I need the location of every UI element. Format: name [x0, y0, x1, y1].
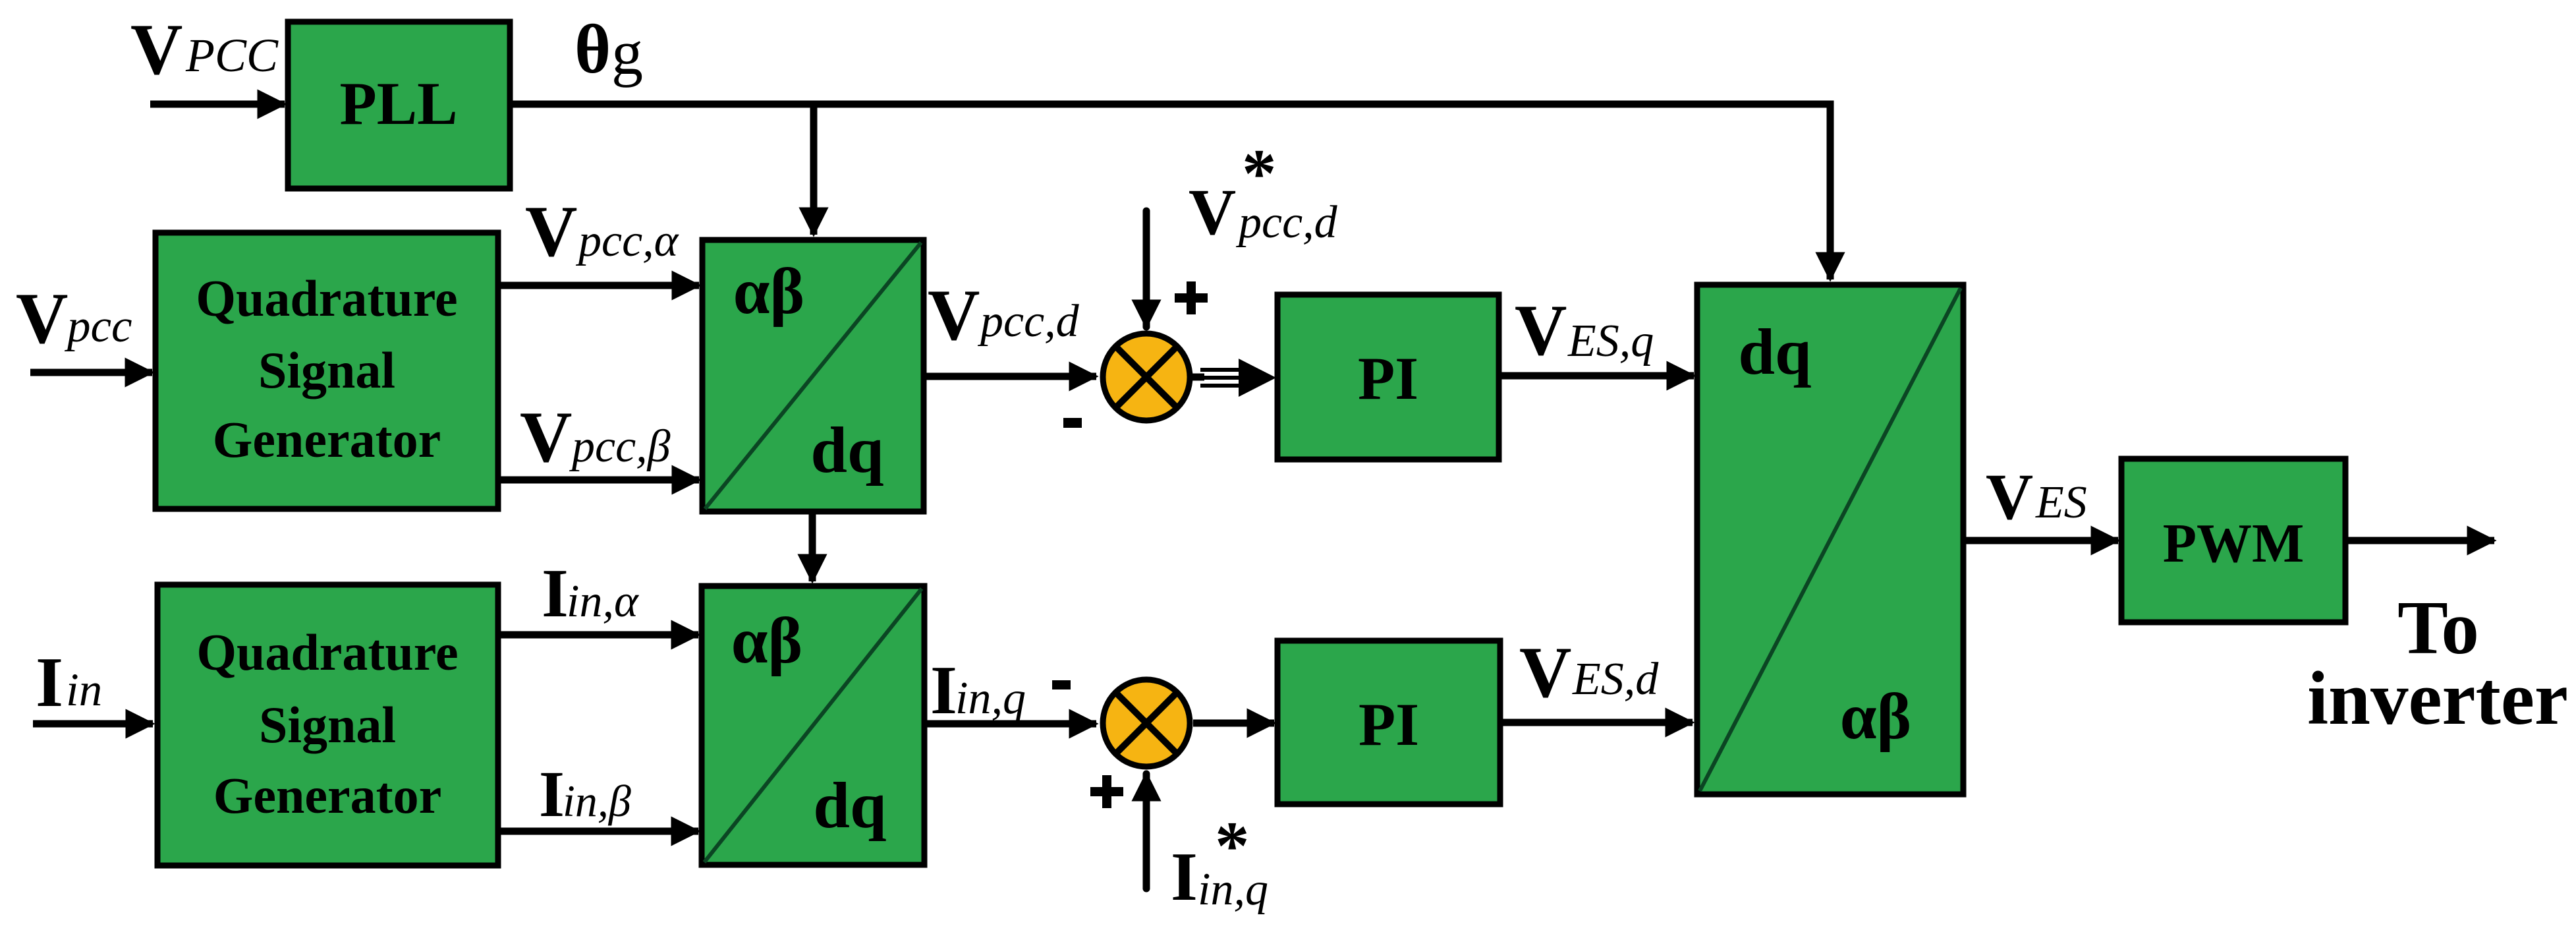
svg-text:g: g: [611, 17, 643, 88]
node label V_pcc_d: [928, 275, 1080, 355]
svg-text:Signal: Signal: [258, 341, 395, 399]
wire Vpcc input arrow into PLL: [150, 101, 285, 108]
block ab-to-dq transform 2: [702, 586, 924, 865]
wire reference Iin_q* up into summing junction 2: [1143, 774, 1150, 889]
node label V_PCC: [130, 9, 279, 90]
node label I_in_q: [930, 651, 1026, 728]
svg-text:dq: dq: [1738, 315, 1811, 388]
svg-text:I: I: [542, 554, 569, 631]
block PLL: [288, 22, 510, 189]
svg-text:pcc,β: pcc,β: [569, 421, 671, 472]
svg-text:ES: ES: [2035, 477, 2087, 528]
summing junction 1 (multiplier circle): [1103, 334, 1190, 421]
wire theta_g from PLL to dq/ab block: [510, 104, 1830, 279]
svg-text:I: I: [539, 757, 565, 831]
svg-text:V: V: [520, 397, 572, 477]
plus sign at summing junction 1: [1175, 281, 1208, 314]
svg-text:V: V: [1986, 460, 2033, 533]
svg-text:in,q: in,q: [955, 673, 1026, 724]
block quadrature signal generator 2: [157, 585, 498, 865]
svg-text:V: V: [16, 278, 68, 359]
svg-text:Quadrature: Quadrature: [196, 270, 457, 327]
wire Vpcc input arrow into quadrature signal generator 1: [30, 369, 152, 376]
svg-text:Generator: Generator: [213, 767, 442, 824]
svg-text:ES,d: ES,d: [1572, 654, 1659, 705]
node label V_pcc: [16, 278, 132, 359]
wire V_ES_d from PI2 to dq/ab block: [1500, 719, 1693, 726]
block ab-to-dq transform 1: [702, 240, 924, 512]
block PWM: [2121, 459, 2345, 622]
node label V_pcc_alpha: [525, 191, 679, 272]
svg-text:in: in: [66, 664, 102, 716]
wire triple-line equivalence arrow from summing junction 1 to PI1: [1190, 359, 1276, 397]
wire from ab/dq block1 down to ab/dq block2: [809, 512, 816, 581]
wire from summing junction 2 to PI2: [1193, 720, 1274, 727]
wire V_ES from dq/ab block to PWM: [1963, 537, 2118, 544]
wire Vpcc_d from ab/dq block1 to summing junction 1: [924, 373, 1096, 380]
svg-text:V: V: [928, 275, 980, 355]
node label I_in_q reference with star: [1171, 807, 1268, 915]
node label I_in_beta: [539, 757, 631, 831]
node label I_in: [36, 643, 102, 722]
wire Iin input arrow into quadrature signal generator 2: [33, 720, 153, 728]
svg-text:θ: θ: [574, 11, 611, 88]
svg-text:PWM: PWM: [2163, 513, 2305, 574]
block PI controller 1: [1277, 295, 1499, 459]
node label V_ES: [1986, 460, 2087, 533]
plus sign at summing junction 2: [1090, 775, 1123, 808]
wire Vpcc_alpha from QSG1 to ab/dq block 1: [498, 282, 699, 289]
svg-text:dq: dq: [810, 413, 883, 486]
node label I_in_alpha: [542, 554, 639, 631]
svg-text:*: *: [1242, 134, 1277, 212]
svg-text:PLL: PLL: [340, 70, 458, 137]
svg-text:I: I: [1171, 838, 1198, 915]
svg-text:in,β: in,β: [563, 776, 631, 826]
svg-text:pcc,α: pcc,α: [575, 216, 679, 266]
svg-text:inverter: inverter: [2307, 657, 2568, 740]
svg-text:*: *: [1215, 807, 1250, 884]
wire theta_g branch down into first ab/dq block: [810, 107, 818, 235]
svg-text:V: V: [1189, 175, 1236, 249]
minus sign at summing junction 1: [1063, 418, 1082, 428]
node label V_ES_q: [1515, 290, 1654, 370]
wire Iin_q from ab/dq block2 to summing junction 2: [924, 720, 1096, 728]
node label V_pcc_d reference with star: [1189, 134, 1338, 249]
svg-text:αβ: αβ: [733, 254, 805, 328]
svg-text:PCC: PCC: [185, 29, 279, 82]
svg-text:I: I: [36, 643, 63, 722]
block quadrature signal generator 1: [155, 233, 498, 509]
wire PWM output to inverter: [2345, 537, 2494, 544]
svg-text:I: I: [930, 651, 957, 728]
svg-text:Signal: Signal: [259, 696, 396, 753]
wire V_ES_q from PI1 to dq/ab block: [1499, 372, 1694, 380]
minus sign at summing junction 2: [1052, 680, 1071, 689]
svg-text:PI: PI: [1358, 691, 1419, 758]
wire Iin_beta from QSG2 to ab/dq block 2: [497, 828, 698, 835]
svg-text:Generator: Generator: [213, 411, 441, 468]
svg-text:αβ: αβ: [731, 604, 803, 677]
block PI controller 2: [1277, 641, 1500, 804]
svg-text:Quadrature: Quadrature: [196, 624, 458, 681]
svg-text:V: V: [1519, 632, 1571, 713]
svg-text:pcc,d: pcc,d: [977, 296, 1080, 347]
summing junction 2 (multiplier circle): [1103, 680, 1190, 767]
wire Iin_alpha from QSG2 to ab/dq block 2: [497, 631, 698, 639]
node label theta_g: [574, 11, 643, 88]
svg-text:V: V: [1515, 290, 1567, 370]
svg-text:in,α: in,α: [567, 576, 639, 627]
svg-text:pcc: pcc: [64, 301, 132, 352]
wire reference Vpcc_d* down into summing junction 1: [1143, 211, 1150, 327]
block dq-to-ab transform: [1697, 285, 1963, 794]
label To inverter: [2307, 586, 2568, 740]
node label V_pcc_beta: [520, 397, 671, 477]
svg-text:V: V: [525, 191, 577, 272]
svg-text:ES,q: ES,q: [1567, 316, 1654, 366]
svg-text:V: V: [130, 9, 182, 90]
wire Vpcc_beta from QSG1 to ab/dq block 1: [497, 477, 699, 484]
node label V_ES_d: [1519, 632, 1659, 713]
svg-text:αβ: αβ: [1840, 680, 1912, 753]
svg-text:dq: dq: [813, 769, 886, 842]
svg-text:PI: PI: [1358, 345, 1418, 412]
